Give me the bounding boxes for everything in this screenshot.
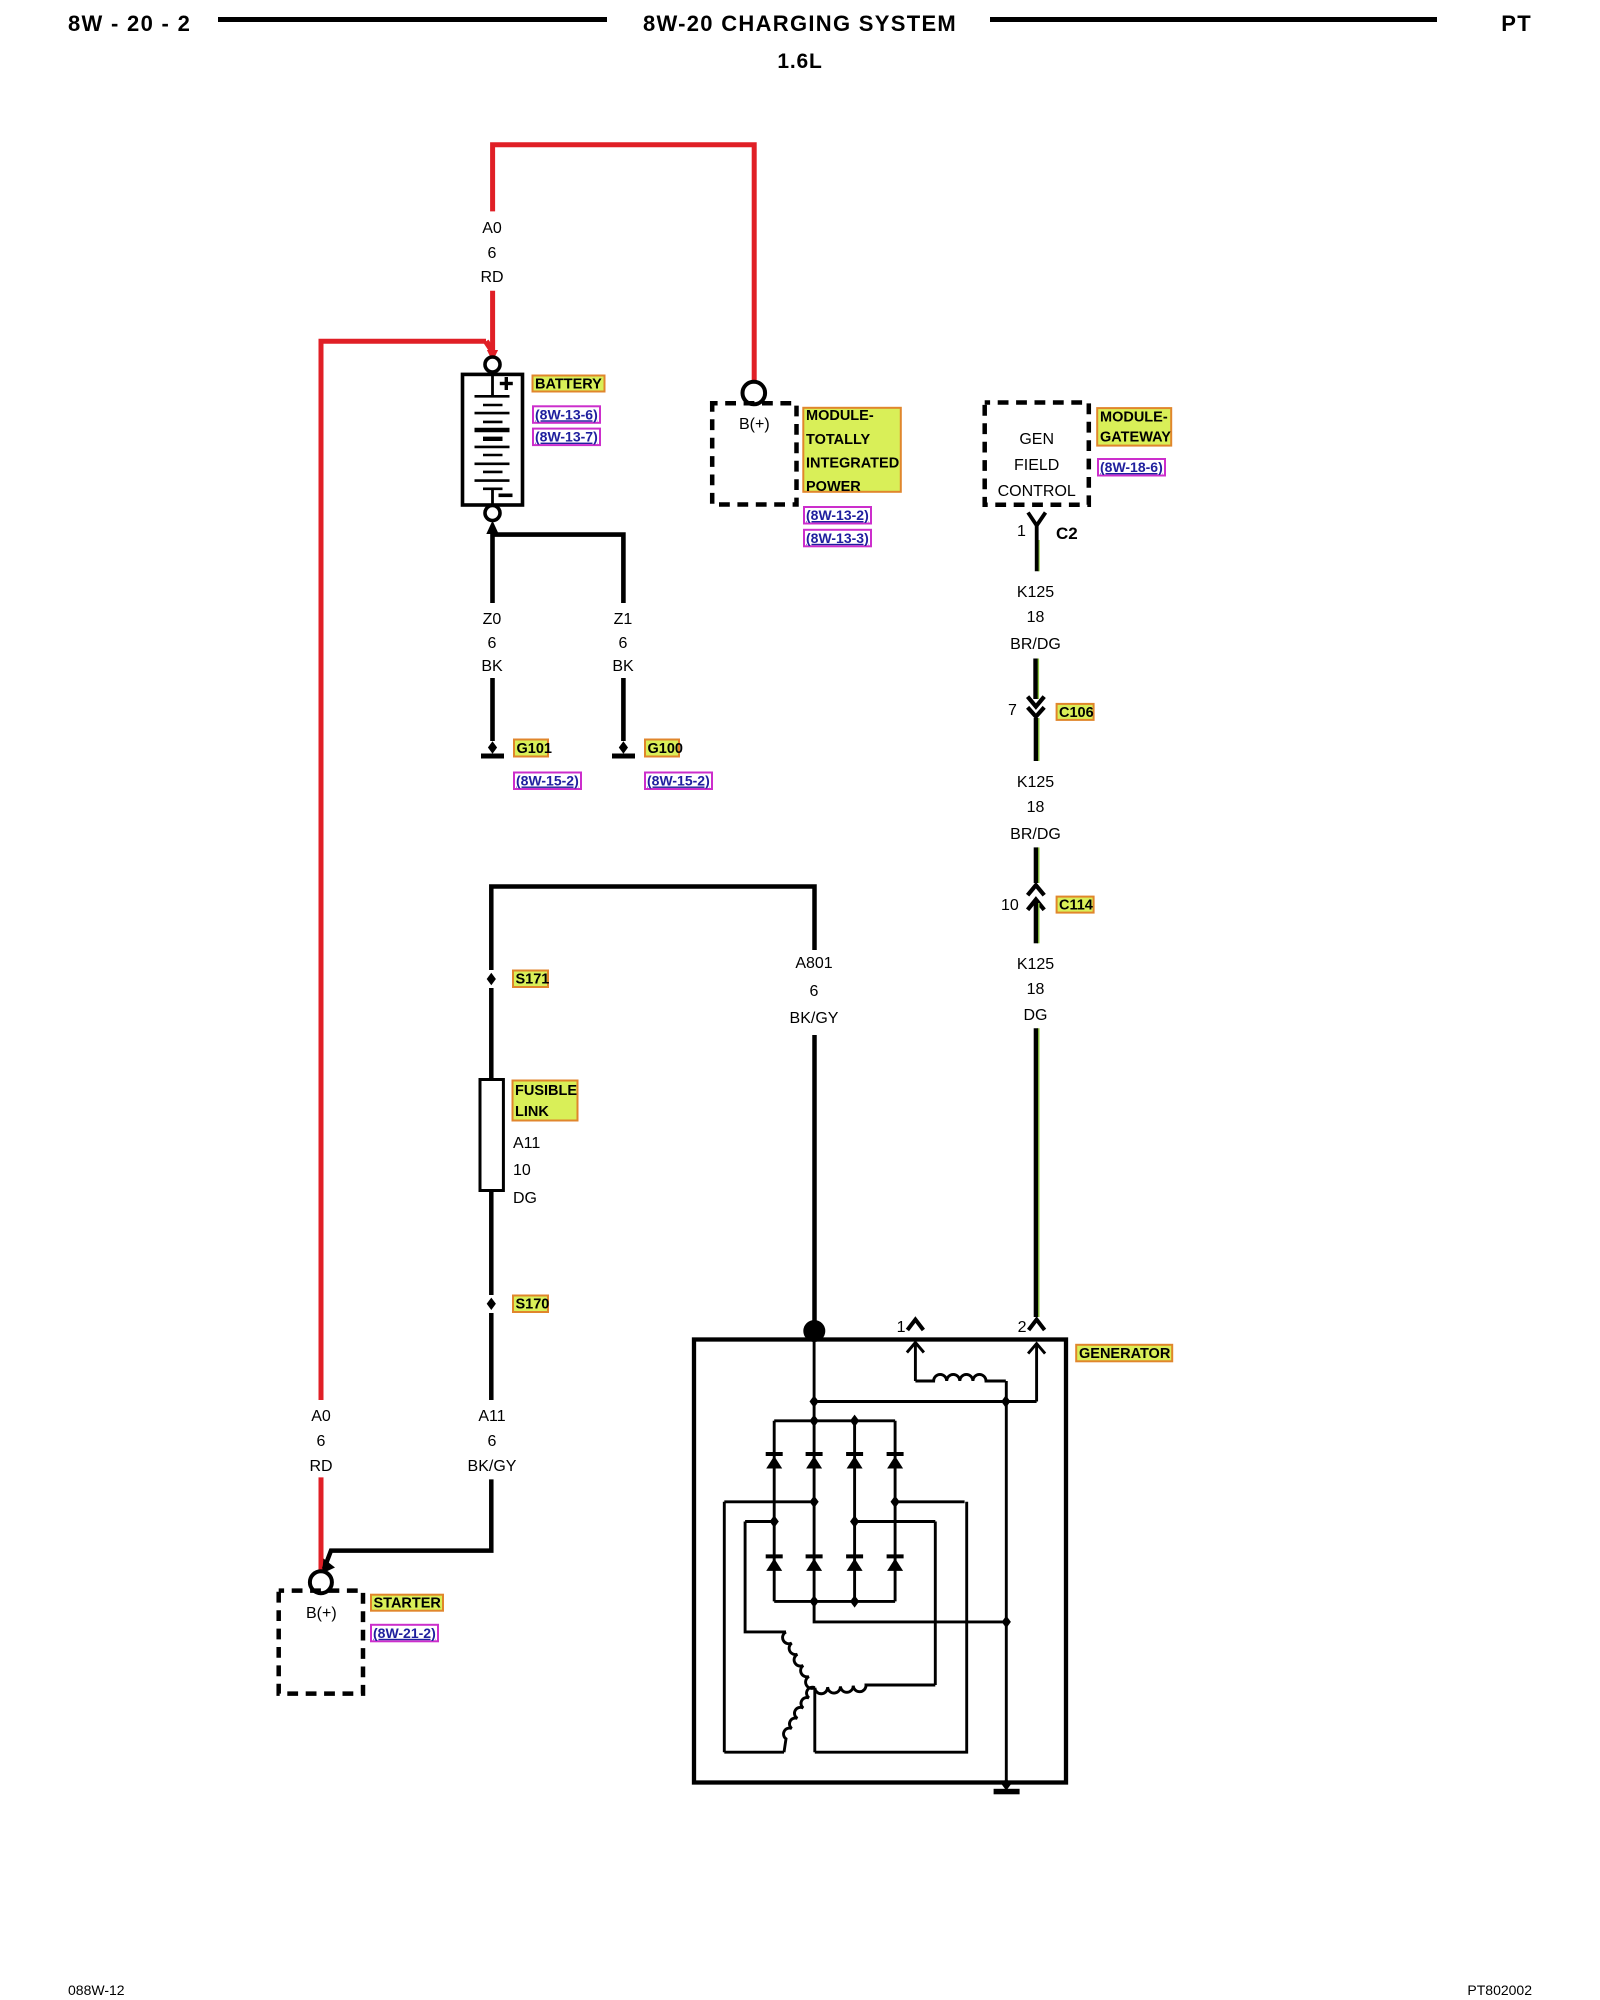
svg-text:BK/GY: BK/GY — [790, 1010, 839, 1027]
RED POWER WIRES — [321, 145, 754, 1571]
svg-text:S171: S171 — [516, 972, 550, 988]
svg-text:6: 6 — [488, 245, 497, 262]
junction diamond ground line — [1002, 1616, 1011, 1628]
wire A0 RD lower run to starter — [319, 1477, 324, 1571]
label S171 — [513, 971, 548, 988]
field winding coil — [915, 1374, 1005, 1381]
svg-text:Z1: Z1 — [614, 611, 633, 628]
wire K125 BR/DG segment 3 — [1037, 718, 1039, 761]
rectifier top bus — [774, 1419, 895, 1422]
battery internal top stub — [491, 374, 494, 396]
header rule left — [218, 17, 607, 22]
svg-text:(8W-13-2): (8W-13-2) — [806, 507, 869, 523]
label G101 — [514, 740, 548, 757]
wire bridge negative to ground line — [814, 1601, 1006, 1622]
label S170 — [513, 1296, 548, 1313]
svg-text:S170: S170 — [516, 1297, 550, 1313]
svg-text:A801: A801 — [795, 955, 832, 972]
stator coil1 feed vertical — [745, 1522, 786, 1632]
svg-text:6: 6 — [619, 635, 628, 652]
svg-text:BR/DG: BR/DG — [1010, 636, 1061, 653]
wire fusible link to S170 — [489, 1191, 494, 1296]
svg-text:K125: K125 — [1017, 774, 1054, 791]
wire S171 to fusible link — [489, 988, 494, 1080]
TIPM terminal circle — [743, 382, 766, 405]
diode D3 upper — [846, 1454, 863, 1469]
svg-text:1: 1 — [897, 1319, 906, 1336]
diode D6 lower — [806, 1556, 823, 1571]
generator ground vertical — [1005, 1381, 1008, 1786]
wire A801 to generator — [812, 1035, 817, 1331]
svg-text:A0: A0 — [311, 1408, 331, 1425]
battery negative terminal circle — [485, 506, 500, 521]
diode D7 lower — [846, 1556, 863, 1571]
svg-text:Z0: Z0 — [483, 611, 502, 628]
junction diamond at case — [1002, 1778, 1011, 1790]
MID FEED WIRES — [324, 887, 815, 1570]
svg-text:6: 6 — [317, 1433, 326, 1450]
phase bus B left stub — [745, 1520, 774, 1523]
svg-text:BK: BK — [612, 658, 634, 675]
generator box — [694, 1340, 1066, 1783]
wire A0 RD top run battery to TIPM — [493, 145, 755, 382]
arrowhead black at battery negative — [486, 521, 498, 535]
svg-text:A0: A0 — [482, 220, 502, 237]
svg-text:A11: A11 — [513, 1135, 540, 1152]
label FUSIBLE LINK — [513, 1081, 578, 1121]
svg-text:(8W-15-2): (8W-15-2) — [516, 773, 579, 789]
svg-text:BATTERY: BATTERY — [535, 377, 602, 393]
svg-text:STARTER: STARTER — [374, 1596, 442, 1612]
stator coil 2 return vertical — [934, 1522, 937, 1686]
svg-text:LINK: LINK — [515, 1104, 549, 1120]
junction diamond top bus col3 — [850, 1415, 859, 1427]
rectifier column 4 — [894, 1421, 897, 1602]
starter terminal circle — [310, 1571, 332, 1593]
stator coil 2 — [815, 1685, 936, 1694]
label G100 — [645, 740, 679, 757]
svg-text:C2: C2 — [1056, 524, 1078, 543]
diode D8 lower — [887, 1556, 904, 1571]
svg-text:INTEGRATED: INTEGRATED — [806, 455, 899, 471]
svg-text:(8W-13-3): (8W-13-3) — [806, 530, 869, 546]
battery plates — [475, 396, 510, 489]
svg-text:7: 7 — [1008, 702, 1017, 719]
svg-text:G100: G100 — [648, 741, 683, 757]
wire B+ vertical into bridge — [813, 1331, 816, 1421]
stator bottom left link — [724, 1751, 784, 1754]
rectifier column 3 — [853, 1421, 856, 1602]
svg-text:B(+): B(+) — [306, 1605, 337, 1622]
svg-text:8W-20 CHARGING SYSTEM: 8W-20 CHARGING SYSTEM — [643, 11, 957, 36]
header rule right — [990, 17, 1437, 22]
svg-text:(8W-13-7): (8W-13-7) — [535, 429, 598, 445]
svg-text:CONTROL: CONTROL — [998, 483, 1076, 500]
link 8W-13-2 — [804, 507, 871, 524]
link 8W-13-3 — [804, 530, 871, 547]
link 8W-18-6 — [1098, 459, 1165, 476]
wire A0 RD battery positive drop — [490, 291, 495, 352]
wire Z0 lower segment — [490, 678, 495, 741]
link 8W-21-2 — [371, 1625, 438, 1642]
svg-text:B(+): B(+) — [739, 416, 770, 433]
rectifier column 2 — [813, 1421, 816, 1602]
diode D1 upper — [766, 1454, 783, 1469]
diode D2 upper — [806, 1454, 823, 1469]
label GENERATOR — [1076, 1345, 1172, 1362]
stator bottom right link — [815, 1502, 967, 1752]
svg-text:K125: K125 — [1017, 956, 1054, 973]
svg-text:GENERATOR: GENERATOR — [1079, 1346, 1171, 1362]
svg-text:1.6L: 1.6L — [777, 50, 822, 73]
link 8W-13-7 — [533, 429, 600, 446]
svg-text:(8W-18-6): (8W-18-6) — [1100, 459, 1163, 475]
wire K125 BR/DG segment 2 — [1037, 659, 1039, 700]
svg-text:18: 18 — [1027, 609, 1045, 626]
fusible link body — [480, 1080, 503, 1191]
svg-text:DG: DG — [1024, 1007, 1048, 1024]
svg-text:(8W-15-2): (8W-15-2) — [647, 773, 710, 789]
svg-text:C114: C114 — [1059, 898, 1093, 914]
phase bus A left stub — [724, 1500, 814, 1503]
svg-text:(8W-13-6): (8W-13-6) — [535, 406, 598, 422]
arrowhead red at battery positive — [487, 350, 498, 362]
junction diamond bottom bus col2 — [810, 1595, 819, 1607]
battery positive terminal circle — [485, 357, 500, 372]
junction diamond at B+ horizontal — [810, 1395, 819, 1407]
battery box — [463, 374, 523, 505]
svg-text:K125: K125 — [1017, 584, 1054, 601]
label C106 — [1057, 704, 1094, 720]
wire A11 BK/GY to starter — [324, 1479, 491, 1569]
link 8W-15-2 (left) — [514, 773, 581, 790]
svg-text:RD: RD — [309, 1458, 332, 1475]
wire K125 segment 5 — [1037, 903, 1039, 943]
svg-text:2: 2 — [1018, 1319, 1027, 1336]
svg-text:8W - 20 - 2: 8W - 20 - 2 — [68, 11, 191, 36]
generator ground bar — [994, 1789, 1020, 1795]
arrowhead black at starter terminal — [322, 1559, 335, 1574]
svg-text:MODULE-: MODULE- — [806, 408, 874, 424]
gen field control dashed box — [985, 403, 1089, 505]
TIPM dashed box — [712, 403, 796, 504]
wire K125 DG long segment to generator — [1037, 1028, 1039, 1317]
svg-text:BK/GY: BK/GY — [468, 1458, 517, 1475]
diode D4 upper — [887, 1454, 904, 1469]
svg-text:1: 1 — [1017, 523, 1026, 540]
svg-text:6: 6 — [488, 635, 497, 652]
svg-text:6: 6 — [810, 983, 819, 1000]
pin 1 chevron — [907, 1320, 923, 1331]
svg-text:6: 6 — [488, 1433, 497, 1450]
connector C106 symbol — [1028, 697, 1045, 717]
svg-text:C106: C106 — [1059, 705, 1094, 721]
stator left phase vertical — [723, 1502, 726, 1752]
connector C114 symbol — [1028, 885, 1045, 910]
phase bus A right stub — [895, 1500, 965, 1503]
svg-text:GEN: GEN — [1019, 431, 1054, 448]
label STARTER — [371, 1595, 443, 1611]
generator junction dot B+ — [803, 1320, 825, 1342]
rectifier bottom bus — [774, 1600, 895, 1603]
stator coil 1 — [783, 1632, 815, 1689]
wire A0 RD starter branch — [321, 341, 486, 1400]
wire Z1 lower segment — [621, 678, 626, 741]
splice S171 — [487, 973, 496, 985]
junction diamond bus A col2 — [810, 1496, 819, 1508]
link 8W-13-6 — [533, 406, 600, 423]
svg-text:DG: DG — [513, 1190, 537, 1207]
svg-text:RD: RD — [480, 269, 503, 286]
connector C2 symbol — [1038, 540, 1040, 571]
svg-text:BK: BK — [481, 658, 503, 675]
stator centre drop — [813, 1688, 816, 1753]
svg-text:FUSIBLE: FUSIBLE — [515, 1083, 577, 1099]
svg-text:18: 18 — [1027, 981, 1045, 998]
svg-text:10: 10 — [513, 1162, 531, 1179]
svg-text:(8W-21-2): (8W-21-2) — [373, 1625, 436, 1641]
wire top bus S171 to A801 — [491, 887, 814, 971]
svg-text:BR/DG: BR/DG — [1010, 826, 1061, 843]
diode D5 lower — [766, 1556, 783, 1571]
pin 2 internal arrow — [1028, 1344, 1045, 1402]
junction diamond bus B col3 — [850, 1515, 859, 1527]
ground G101 — [488, 741, 497, 753]
svg-text:088W-12: 088W-12 — [68, 1982, 125, 1998]
wire Z1 branch — [493, 535, 624, 603]
junction diamond top bus col2 — [810, 1415, 819, 1427]
ground G100 — [619, 741, 628, 753]
link 8W-15-2 (right) — [645, 773, 712, 790]
junction diamond bottom bus col3 — [850, 1595, 859, 1607]
svg-text:18: 18 — [1027, 799, 1045, 816]
svg-text:MODULE-: MODULE- — [1100, 410, 1168, 426]
svg-text:FIELD: FIELD — [1014, 457, 1059, 474]
label MODULE-GATEWAY — [1097, 408, 1171, 446]
stator coil 3 — [784, 1687, 815, 1752]
svg-text:PT802002: PT802002 — [1467, 1982, 1532, 1998]
wire S170 to A11 label — [489, 1313, 494, 1400]
starter dashed box — [279, 1591, 363, 1694]
svg-text:PT: PT — [1501, 11, 1532, 36]
pin 2 chevron — [1029, 1320, 1045, 1331]
label BATTERY — [533, 376, 605, 392]
label MODULE-TOTALLY INTEGRATED POWER — [803, 408, 901, 492]
wire Z0 drop — [490, 526, 495, 603]
svg-text:G101: G101 — [517, 741, 552, 757]
wire B+ horizontal to pin 2 — [814, 1400, 1037, 1403]
junction diamond bus B col1 — [770, 1515, 779, 1527]
phase bus B right stub — [855, 1520, 936, 1523]
rectifier column 1 — [773, 1421, 776, 1602]
label C114 — [1057, 897, 1094, 913]
wire A0 RD diagonal into battery positive — [486, 341, 492, 351]
battery internal bottom stub — [491, 489, 494, 505]
svg-text:POWER: POWER — [806, 479, 861, 495]
wire K125 segment 4 — [1037, 847, 1039, 883]
svg-text:GATEWAY: GATEWAY — [1100, 430, 1171, 446]
svg-text:TOTALLY: TOTALLY — [806, 432, 871, 448]
battery plus sign — [500, 377, 513, 390]
junction diamond bus A col4 — [891, 1496, 900, 1508]
svg-text:A11: A11 — [478, 1408, 505, 1425]
svg-text:10: 10 — [1001, 897, 1019, 914]
splice S170 — [487, 1298, 496, 1310]
battery minus sign — [499, 494, 513, 498]
pin 1 internal arrow — [907, 1343, 924, 1382]
junction diamond field return — [1001, 1395, 1010, 1407]
